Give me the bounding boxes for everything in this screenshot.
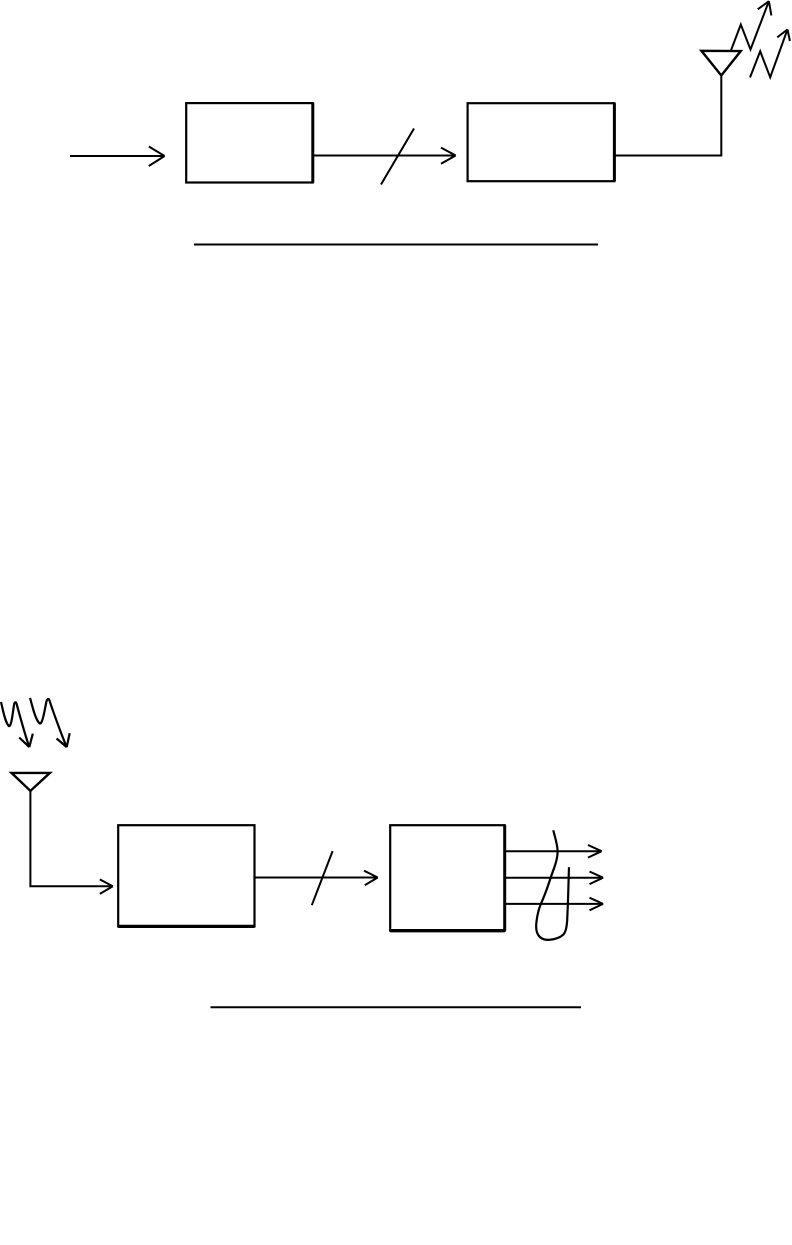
bus slash mark on bottom wire (312, 851, 333, 905)
incoming wave arrow 2 (right squiggle) (30, 698, 70, 747)
wire: input signal arrow into modulator box (70, 147, 165, 167)
wire: output arrow 2 (506, 872, 604, 885)
wire: output arrow 1 (506, 845, 602, 858)
radiated wave arrow 2 (right zigzag) (750, 29, 790, 77)
antenna: receive antenna symbol (12, 773, 50, 791)
wire: bus arrow from box 1 to box 2 (313, 148, 456, 164)
block: receiver front end (box 3) (118, 825, 254, 926)
caption rule under bottom diagram (211, 1006, 582, 1008)
block: demodulator (box 4) (390, 825, 505, 931)
wire: box 2 to antenna feed (614, 76, 721, 156)
incoming wave arrow 1 (left squiggle) (1, 702, 33, 747)
wire: bus arrow from box 3 to box 4 (255, 871, 378, 886)
hand-drawn grouping loop over output arrows (536, 830, 569, 940)
antenna: transmit antenna symbol (701, 51, 740, 76)
block: modulator (box 1) (186, 103, 313, 182)
radiated wave arrow 1 (left zigzag) (731, 1, 772, 51)
caption rule under top diagram (194, 244, 598, 246)
block: RF stage (box 2) (468, 103, 615, 181)
wire: antenna feed down and into box 3 (30, 791, 112, 894)
bus slash mark on top wire (381, 129, 414, 185)
wire: output arrow 3 (506, 898, 604, 911)
